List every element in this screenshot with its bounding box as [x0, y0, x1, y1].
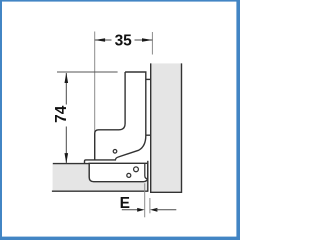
cabinet side panel fill (vertical): [151, 63, 182, 192]
E dim: left extension line: [144, 183, 146, 217]
hinge arm + boot outline: [85, 72, 151, 163]
blue frame right: [236, 0, 240, 240]
cabinet side panel edges: [151, 63, 182, 192]
blue frame left: [0, 0, 2, 240]
E dim: right extension line: [149, 198, 151, 213]
E dim line right tail: [156, 209, 176, 211]
door panel fill (horizontal slab): [53, 164, 148, 192]
svg-text:35: 35: [115, 32, 133, 49]
door right edge line: [147, 161, 149, 191]
arm/boot left S-profile: [95, 72, 125, 160]
cup screw circle small: [127, 173, 131, 177]
35 dim line right segment: [135, 39, 153, 41]
E dim: left arrowhead: [137, 208, 144, 212]
74 dim: vertical dimension line (broken at label): [65, 73, 67, 163]
svg-text:74: 74: [53, 105, 70, 123]
svg-text:E: E: [120, 195, 130, 212]
35 dim: left extension line (long, down to cup flange): [94, 32, 96, 161]
door top surface line: [53, 163, 148, 165]
boot pivot circle: [113, 150, 117, 154]
35 dim line left segment: [95, 39, 112, 41]
hinge cup (white hole in door): [89, 163, 148, 181]
35 dim: right arrowhead: [142, 38, 152, 42]
E dim: right arrowhead: [150, 208, 157, 212]
cup inner right wall: [145, 164, 148, 179]
74 dim: top extension line: [57, 71, 118, 73]
35 dim: left arrowhead: [95, 38, 105, 42]
cup screw circle big: [134, 167, 139, 172]
74 dim: up arrowhead: [65, 73, 69, 83]
blue frame bottom: [0, 237, 240, 240]
35 dim: right extension line: [151, 32, 153, 55]
door bottom edge line: [52, 190, 148, 192]
arm top mounting tab: [146, 78, 151, 80]
74 dim: down arrowhead: [65, 153, 69, 163]
E dim line left tail: [122, 209, 139, 211]
blue frame top: [0, 0, 240, 2]
